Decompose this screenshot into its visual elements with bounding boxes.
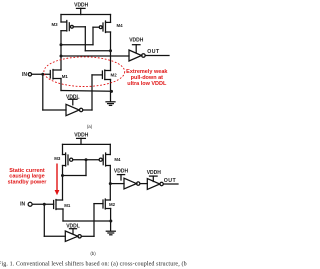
svg-text:IN: IN bbox=[22, 72, 27, 78]
svg-text:VDDL: VDDL bbox=[66, 223, 80, 229]
svg-text:VDDH: VDDH bbox=[129, 38, 144, 44]
svg-text:VDDH: VDDH bbox=[74, 132, 89, 138]
svg-text:M1: M1 bbox=[64, 203, 71, 208]
svg-text:M2: M2 bbox=[111, 72, 118, 77]
svg-text:M1: M1 bbox=[62, 74, 69, 79]
svg-text:standby power: standby power bbox=[8, 179, 48, 185]
svg-text:M2: M2 bbox=[109, 202, 116, 207]
svg-text:Fig. 1. Conventional level sh: Fig. 1. Conventional level shifters base… bbox=[0, 261, 187, 268]
svg-text:OUT: OUT bbox=[147, 49, 160, 55]
svg-text:VDDH: VDDH bbox=[114, 169, 129, 175]
svg-text:(b): (b) bbox=[90, 251, 96, 256]
svg-text:IN: IN bbox=[20, 202, 25, 208]
svg-text:(a): (a) bbox=[87, 124, 93, 129]
svg-text:M4: M4 bbox=[114, 157, 121, 162]
svg-text:Extremely weak: Extremely weak bbox=[126, 69, 168, 75]
svg-text:ultra low VDDL: ultra low VDDL bbox=[127, 81, 167, 87]
svg-text:VDDH: VDDH bbox=[74, 2, 89, 8]
svg-text:M4: M4 bbox=[116, 23, 123, 28]
svg-text:VDDH: VDDH bbox=[147, 170, 162, 176]
svg-text:VDDL: VDDL bbox=[66, 94, 80, 100]
svg-text:M3: M3 bbox=[54, 156, 61, 161]
svg-text:OUT: OUT bbox=[164, 178, 177, 184]
svg-text:M3: M3 bbox=[51, 22, 58, 27]
